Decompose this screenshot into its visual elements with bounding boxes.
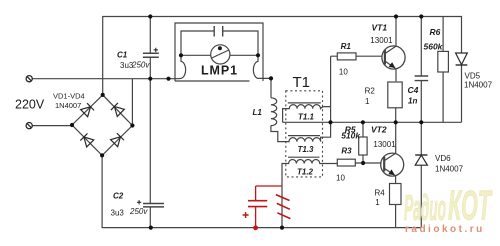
svg-text:T1.3: T1.3 xyxy=(298,145,315,154)
svg-text:220V: 220V xyxy=(15,98,45,112)
svg-text:10: 10 xyxy=(336,174,345,183)
svg-text:510k: 510k xyxy=(341,131,361,141)
svg-text:R4: R4 xyxy=(375,189,386,198)
svg-text:L1: L1 xyxy=(253,108,263,117)
svg-text:VT2: VT2 xyxy=(371,125,387,135)
svg-text:T1.1: T1.1 xyxy=(298,113,315,122)
svg-text:1n: 1n xyxy=(408,96,417,105)
svg-text:560k: 560k xyxy=(424,42,444,52)
svg-text:250v: 250v xyxy=(129,207,148,216)
svg-text:C4: C4 xyxy=(408,85,419,95)
svg-text:Радио: Радио xyxy=(404,187,446,228)
svg-text:1: 1 xyxy=(375,198,380,207)
svg-text:R3: R3 xyxy=(341,146,352,155)
svg-text:1N4007: 1N4007 xyxy=(55,101,81,110)
svg-text:1: 1 xyxy=(365,97,370,106)
svg-text:VD5: VD5 xyxy=(465,72,481,81)
svg-text:13001: 13001 xyxy=(370,36,393,45)
svg-text:13001: 13001 xyxy=(373,140,396,149)
svg-text:VD6: VD6 xyxy=(435,154,451,163)
svg-text:3u3: 3u3 xyxy=(111,209,125,218)
svg-text:T1.2: T1.2 xyxy=(297,167,314,176)
svg-text:250v: 250v xyxy=(131,61,150,70)
svg-text:radiokot.ru: radiokot.ru xyxy=(405,224,485,235)
svg-text:LMP1: LMP1 xyxy=(201,64,238,78)
svg-text:R2: R2 xyxy=(365,86,376,95)
svg-text:1N4007: 1N4007 xyxy=(435,165,464,174)
svg-text:R1: R1 xyxy=(341,42,352,51)
svg-text:VD1-VD4: VD1-VD4 xyxy=(53,92,85,101)
svg-text:10: 10 xyxy=(339,68,348,77)
svg-text:VT1: VT1 xyxy=(372,23,388,33)
svg-text:КОТ: КОТ xyxy=(448,182,493,229)
svg-text:R6: R6 xyxy=(430,27,441,37)
svg-text:1N4007: 1N4007 xyxy=(464,81,493,90)
svg-text:T1: T1 xyxy=(293,74,311,91)
svg-text:C2: C2 xyxy=(113,191,124,200)
svg-text:C1: C1 xyxy=(117,51,128,60)
